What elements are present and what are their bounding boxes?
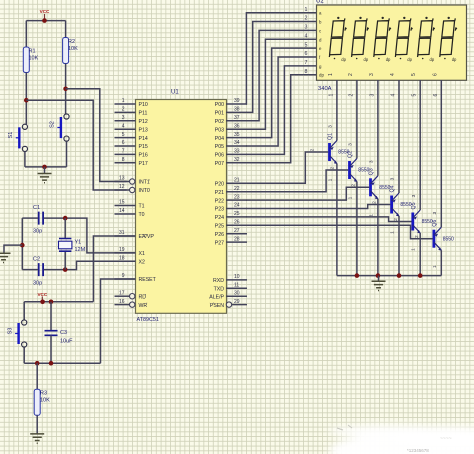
svg-text:26: 26 xyxy=(234,220,240,226)
wire P04 to display pin 5 xyxy=(246,48,317,138)
svg-text:1: 1 xyxy=(328,94,334,97)
wire P21 to Q2 base xyxy=(246,170,348,192)
svg-text:U2: U2 xyxy=(316,0,324,5)
svg-text:25: 25 xyxy=(234,211,240,217)
svg-text:P25: P25 xyxy=(215,224,224,230)
node caps-gnd junction xyxy=(20,243,25,248)
svg-text:dp: dp xyxy=(341,57,346,62)
wire ground rail xyxy=(25,166,67,168)
svg-text:37: 37 xyxy=(234,115,240,121)
svg-text:10K: 10K xyxy=(40,398,50,404)
svg-text:3: 3 xyxy=(328,125,334,128)
svg-text:39: 39 xyxy=(234,98,240,104)
pin 21 P20 (right) xyxy=(215,177,247,187)
svg-text:P27: P27 xyxy=(215,240,224,246)
wire display digit 3 to Q3 xyxy=(377,80,379,176)
node ground rail junction xyxy=(42,165,47,170)
svg-text:22: 22 xyxy=(234,186,240,192)
svg-text:21: 21 xyxy=(234,177,240,183)
node rail junction xyxy=(397,273,402,278)
wire P25 to Q6 base xyxy=(246,225,433,238)
svg-text:2: 2 xyxy=(393,218,399,221)
resistor R3 10K xyxy=(34,389,40,415)
svg-text:P26: P26 xyxy=(215,232,224,238)
svg-text:P15: P15 xyxy=(139,144,148,150)
svg-text:P05: P05 xyxy=(215,144,224,150)
ground (left of crystal) xyxy=(0,253,11,262)
svg-text:Q4: Q4 xyxy=(390,185,396,192)
svg-text:P10: P10 xyxy=(139,102,148,108)
svg-text:~~~~: ~~~~ xyxy=(440,436,452,442)
svg-text:6: 6 xyxy=(432,73,438,76)
svg-text:3: 3 xyxy=(122,115,125,121)
switch S3 xyxy=(8,320,27,347)
wire to left ground xyxy=(4,245,22,253)
node R3 top xyxy=(35,361,40,366)
svg-text:P21: P21 xyxy=(215,190,224,196)
svg-text:C2: C2 xyxy=(33,257,40,263)
decorative white wash xyxy=(328,425,474,454)
svg-text:1: 1 xyxy=(122,98,125,104)
wire display digit 6 to Q6 xyxy=(440,80,442,227)
wire S3 to bottom rail xyxy=(23,347,25,363)
svg-text:AT89C51: AT89C51 xyxy=(137,317,159,323)
svg-text:TXD: TXD xyxy=(214,287,225,293)
wire P23 to Q4 base xyxy=(246,205,390,209)
node rail junction xyxy=(355,273,360,278)
svg-text:6: 6 xyxy=(433,94,439,97)
pin 25 P24 (right) xyxy=(215,211,247,221)
wire caps common to ground xyxy=(21,218,23,270)
node VCC-rail junction xyxy=(42,18,47,23)
svg-text:VCC: VCC xyxy=(37,292,47,297)
svg-text:dp: dp xyxy=(452,57,457,62)
svg-text:Q5: Q5 xyxy=(411,202,417,209)
svg-text:P01: P01 xyxy=(215,111,224,117)
svg-text:5: 5 xyxy=(305,42,308,48)
svg-text:1: 1 xyxy=(347,196,353,199)
svg-text:8550: 8550 xyxy=(443,236,454,242)
wire P24 to Q5 base xyxy=(246,217,412,222)
svg-text:S1: S1 xyxy=(8,132,14,139)
7seg digit 3 glyph xyxy=(374,17,391,63)
pin 16 WR (left) xyxy=(115,299,148,309)
svg-text:P23: P23 xyxy=(215,207,224,213)
svg-text:P17: P17 xyxy=(139,161,148,167)
svg-text:Y1: Y1 xyxy=(75,240,82,246)
wire VCC rail top xyxy=(26,20,65,22)
svg-text:10uF: 10uF xyxy=(60,339,73,345)
svg-text:10K: 10K xyxy=(29,56,39,62)
svg-text:INT0: INT0 xyxy=(139,188,150,194)
wire RESET pin to rail xyxy=(101,279,136,363)
wire Q3 collector to rail xyxy=(377,199,379,276)
svg-text:2: 2 xyxy=(330,166,336,169)
pin 12 INT0 (left) xyxy=(115,184,150,194)
crystal Y1 12M xyxy=(59,218,86,270)
svg-text:dp: dp xyxy=(430,57,435,62)
svg-text:3: 3 xyxy=(305,25,308,31)
svg-text:36: 36 xyxy=(234,123,240,129)
svg-text:Q6: Q6 xyxy=(432,220,438,227)
pin 29 PSEN (right) xyxy=(210,299,247,309)
svg-text:R2: R2 xyxy=(68,39,75,45)
7seg digit 5 glyph xyxy=(418,17,435,63)
svg-text:32: 32 xyxy=(234,157,240,163)
wire X2 node (bottom) xyxy=(22,269,38,271)
svg-text:30p: 30p xyxy=(33,229,42,235)
svg-text:27: 27 xyxy=(234,228,240,234)
wire P00 to display pin 1 xyxy=(246,13,317,104)
svg-text:12: 12 xyxy=(119,184,125,190)
wire R3 to ground xyxy=(36,415,38,434)
svg-text:X2: X2 xyxy=(139,260,145,266)
svg-text:31: 31 xyxy=(119,230,125,236)
wire EA/VP to VCC rail xyxy=(93,236,135,302)
pin 37 P02 (right) xyxy=(215,115,247,125)
svg-text:35: 35 xyxy=(234,132,240,138)
svg-text:ALE/P: ALE/P xyxy=(209,295,224,301)
wire display digit 2 to Q2 xyxy=(356,80,358,159)
svg-text:1: 1 xyxy=(432,265,438,268)
transistor Q1 8550 xyxy=(310,125,350,182)
svg-text:13: 13 xyxy=(119,176,125,182)
svg-text:P11: P11 xyxy=(139,111,148,117)
wire display digit 5 to Q5 xyxy=(419,80,421,210)
svg-text:*12345678: *12345678 xyxy=(407,448,429,453)
pin 23 P22 (right) xyxy=(215,194,247,204)
svg-text:R1: R1 xyxy=(29,49,36,55)
svg-text:P16: P16 xyxy=(139,153,148,159)
wire VCC rail to R2 xyxy=(65,21,67,38)
pin 10 RXD (right) xyxy=(213,274,247,284)
7seg digit 1 glyph xyxy=(329,17,346,63)
wire R1 node to INT0 pin 12 xyxy=(26,100,126,190)
display U2 6-digit 7-segment body xyxy=(317,5,467,80)
wire X1 node (top) xyxy=(22,217,38,219)
node VCC tick xyxy=(40,300,45,305)
svg-text:18: 18 xyxy=(119,256,125,262)
svg-text:R3: R3 xyxy=(40,391,47,397)
transistor Q3 8550 xyxy=(351,160,391,217)
pin 34 P05 (right) xyxy=(215,140,247,150)
svg-text:P24: P24 xyxy=(215,215,224,221)
svg-text:38: 38 xyxy=(234,107,240,113)
pin 9 RESET (left) xyxy=(115,273,157,283)
wire transistor ground rail xyxy=(337,275,441,277)
pin 7 P16 (left) xyxy=(115,149,148,159)
svg-text:dp: dp xyxy=(364,57,369,62)
svg-text:VCC: VCC xyxy=(40,9,50,14)
pin 18 X2 (left) xyxy=(115,256,145,266)
pin 1 P10 (left) xyxy=(115,98,148,108)
svg-text:WR: WR xyxy=(139,303,148,309)
svg-text:3: 3 xyxy=(369,160,375,163)
pin 36 P03 (right) xyxy=(215,123,247,133)
svg-text:23: 23 xyxy=(234,194,240,200)
svg-text:dp: dp xyxy=(386,57,391,62)
pin 24 P23 (right) xyxy=(215,203,247,213)
transistor Q2 8550 xyxy=(330,143,370,200)
wire VCC rail to R1 xyxy=(25,21,27,47)
svg-text:30p: 30p xyxy=(33,281,42,287)
pin 8 P17 (left) xyxy=(115,157,148,167)
svg-text:C1: C1 xyxy=(33,205,40,211)
svg-text:P04: P04 xyxy=(215,136,224,142)
pin 38 P01 (right) xyxy=(215,107,247,117)
node crystal bottom xyxy=(63,267,68,272)
svg-text:Q3: Q3 xyxy=(369,168,375,175)
svg-text:EA/VP: EA/VP xyxy=(139,234,155,240)
svg-text:C3: C3 xyxy=(60,330,67,336)
svg-text:7: 7 xyxy=(305,60,308,66)
svg-text:INT1: INT1 xyxy=(139,180,150,186)
wire Q4 collector to rail xyxy=(398,216,400,276)
node R1-INT0 junction xyxy=(24,98,29,103)
wire P22 to Q3 base xyxy=(246,187,369,200)
svg-text:X1: X1 xyxy=(139,251,145,257)
pin 28 P27 (right) xyxy=(215,236,247,246)
svg-text:9: 9 xyxy=(122,273,125,279)
svg-text:T0: T0 xyxy=(139,212,145,218)
svg-text:17: 17 xyxy=(119,290,125,296)
svg-text:2: 2 xyxy=(348,94,354,97)
svg-text:P03: P03 xyxy=(215,127,224,133)
wire rail to S3 xyxy=(23,302,25,320)
wire rail to R3 xyxy=(36,363,38,389)
switch S1 xyxy=(8,124,28,151)
svg-text:1: 1 xyxy=(305,7,308,13)
svg-text:P00: P00 xyxy=(215,102,224,108)
svg-text:12M: 12M xyxy=(75,247,86,253)
pin 27 P26 (right) xyxy=(215,228,247,238)
wire P06 to display pin 7 xyxy=(246,66,317,154)
7seg digit 6 glyph xyxy=(440,17,457,63)
wire Q5 collector to rail xyxy=(419,233,421,276)
wire P07 to display pin 8 xyxy=(246,75,317,163)
wire S2 to ground rail xyxy=(66,141,68,167)
svg-text:P22: P22 xyxy=(215,198,224,204)
pin 39 P00 (right) xyxy=(215,98,247,108)
wire reset bottom rail xyxy=(24,362,100,364)
svg-text:15: 15 xyxy=(119,200,125,206)
7seg digit 2 glyph xyxy=(352,17,369,63)
svg-text:P13: P13 xyxy=(139,127,148,133)
pin 30 ALE/P (right) xyxy=(209,291,247,301)
svg-text:P12: P12 xyxy=(139,119,148,125)
svg-text:7: 7 xyxy=(122,149,125,155)
svg-text:33: 33 xyxy=(234,149,240,155)
pin 15 T1 (left) xyxy=(115,200,145,210)
svg-text:S3: S3 xyxy=(8,328,14,335)
wire P20 to Q1 base xyxy=(246,152,328,183)
svg-text:1: 1 xyxy=(327,178,333,181)
svg-text:T1: T1 xyxy=(139,204,145,210)
node rail junction xyxy=(418,273,423,278)
svg-text:2: 2 xyxy=(351,184,357,187)
node C3 bottom xyxy=(49,361,54,366)
pin 35 P04 (right) xyxy=(215,132,247,142)
svg-text:1: 1 xyxy=(411,248,417,251)
capacitor C3 10uF xyxy=(45,302,74,363)
wire Q1 collector to rail xyxy=(336,164,338,276)
wire P03 to display pin 4 xyxy=(246,39,317,129)
resistor R1 10K xyxy=(23,47,29,73)
pin 31 EA/VP (left) xyxy=(115,230,155,240)
wire P02 to display pin 3 xyxy=(246,30,317,120)
wire VCC reset rail xyxy=(24,301,93,303)
pin 26 P25 (right) xyxy=(215,220,247,230)
svg-text:11: 11 xyxy=(234,283,239,289)
svg-text:RXD: RXD xyxy=(213,278,224,284)
svg-text:2: 2 xyxy=(414,235,420,238)
node R2-INT1 junction xyxy=(63,87,68,92)
svg-text:2: 2 xyxy=(122,107,125,113)
op chip U1 AT89C51 body xyxy=(136,100,227,314)
svg-text:340A: 340A xyxy=(318,86,332,92)
node rail junction xyxy=(376,273,381,278)
svg-text:2: 2 xyxy=(310,148,316,151)
pin 17 RD (left) xyxy=(115,290,147,300)
pin 14 T0 (left) xyxy=(115,208,145,218)
pin 11 TXD (right) xyxy=(214,283,247,293)
svg-text:5: 5 xyxy=(411,73,417,76)
svg-text:10: 10 xyxy=(234,274,240,280)
wire R2 node to INT1 pin 13 xyxy=(66,89,127,182)
transistor Q6 8550 xyxy=(414,212,454,269)
node crystal top xyxy=(63,216,68,221)
wire display digit 1 to Q1 xyxy=(336,80,338,141)
svg-text:3: 3 xyxy=(369,73,375,76)
svg-text:6: 6 xyxy=(305,51,308,57)
pin 4 P13 (left) xyxy=(115,123,148,133)
pin 32 P07 (right) xyxy=(215,157,247,167)
svg-text:1: 1 xyxy=(328,73,334,76)
pin 22 P21 (right) xyxy=(215,186,247,196)
svg-text:8: 8 xyxy=(305,69,308,75)
svg-text:34: 34 xyxy=(234,140,240,146)
svg-text:P07: P07 xyxy=(215,161,224,167)
wire P01 to display pin 2 xyxy=(246,22,317,113)
svg-text:2: 2 xyxy=(348,73,354,76)
svg-text:P02: P02 xyxy=(215,119,224,125)
wire R1 to S1 / node xyxy=(25,73,27,125)
svg-text:dp: dp xyxy=(407,57,412,62)
svg-text:4: 4 xyxy=(390,73,396,76)
svg-text:4: 4 xyxy=(122,123,125,129)
svg-text:4: 4 xyxy=(305,34,308,40)
pin 13 INT1 (left) xyxy=(115,176,150,186)
svg-text:dp: dp xyxy=(319,73,324,78)
svg-text:S2: S2 xyxy=(50,121,56,128)
svg-text:P20: P20 xyxy=(215,181,224,187)
pin 33 P06 (right) xyxy=(215,149,247,159)
svg-text:30: 30 xyxy=(234,291,240,297)
svg-text:5: 5 xyxy=(122,132,125,138)
7seg digit 4 glyph xyxy=(395,17,412,63)
pin 19 X1 (left) xyxy=(115,247,145,257)
svg-text:8: 8 xyxy=(122,157,125,163)
pin 2 P11 (left) xyxy=(115,107,148,117)
svg-text:28: 28 xyxy=(234,236,240,242)
svg-text:Q2: Q2 xyxy=(348,151,354,158)
wire S1 to ground rail xyxy=(24,152,26,167)
svg-text:29: 29 xyxy=(234,299,240,305)
svg-text:19: 19 xyxy=(119,247,125,253)
svg-text:3: 3 xyxy=(348,143,354,146)
svg-text:6: 6 xyxy=(122,140,125,146)
wire R2 to S2 / node xyxy=(65,64,67,114)
svg-text:5: 5 xyxy=(412,94,418,97)
svg-text:RD: RD xyxy=(139,294,147,300)
svg-text:PSEN: PSEN xyxy=(210,303,224,309)
node C3 top xyxy=(49,300,54,305)
pin 6 P15 (left) xyxy=(115,140,148,150)
wire P05 to display pin 6 xyxy=(246,57,317,146)
pin 5 P14 (left) xyxy=(115,132,148,142)
switch S2 xyxy=(50,114,70,141)
svg-text:1: 1 xyxy=(390,231,396,234)
svg-text:16: 16 xyxy=(119,299,125,305)
ground (below S1/S2) xyxy=(44,167,46,174)
wire Q2 collector to rail xyxy=(356,182,358,276)
svg-text:Q1: Q1 xyxy=(328,133,334,140)
svg-text:4: 4 xyxy=(391,94,397,97)
svg-text:2: 2 xyxy=(372,201,378,204)
ground (below R3) xyxy=(30,434,44,443)
svg-text:P06: P06 xyxy=(215,153,224,159)
transistor Q5 8550 xyxy=(393,194,433,251)
svg-text:2: 2 xyxy=(305,16,308,22)
transistor Q4 8550 xyxy=(372,177,412,234)
ground (transistor rail) xyxy=(378,276,380,282)
svg-text:P14: P14 xyxy=(139,136,148,142)
wire display digit 4 to Q4 xyxy=(398,80,400,193)
svg-text:24: 24 xyxy=(234,203,240,209)
svg-text:10K: 10K xyxy=(68,46,78,52)
svg-text:RESET: RESET xyxy=(139,277,157,283)
pin 3 P12 (left) xyxy=(115,115,148,125)
resistor R2 10K xyxy=(63,38,69,64)
wire Q6 collector to rail xyxy=(440,250,442,275)
svg-text:14: 14 xyxy=(119,208,125,214)
svg-text:3: 3 xyxy=(390,177,396,180)
svg-text:3: 3 xyxy=(432,212,438,215)
svg-text:3: 3 xyxy=(369,94,375,97)
svg-text:3: 3 xyxy=(411,194,417,197)
svg-text:U1: U1 xyxy=(171,90,179,96)
